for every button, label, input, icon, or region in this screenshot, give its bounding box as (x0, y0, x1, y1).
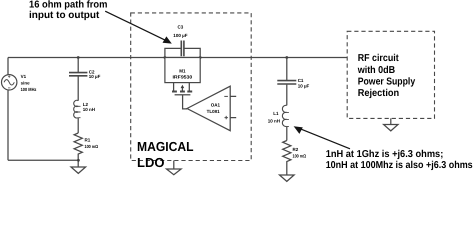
svg-text:10 µF: 10 µF (298, 83, 310, 88)
label L1 (268, 111, 280, 124)
dashed box MAGICAL LDO (131, 13, 252, 161)
svg-text:IRF9530: IRF9530 (173, 74, 193, 79)
svg-text:V1: V1 (21, 74, 27, 79)
svg-text:R1: R1 (85, 138, 91, 143)
svg-text:with 0dB: with 0dB (357, 65, 395, 76)
svg-text:RF circuit: RF circuit (358, 53, 400, 64)
svg-text:Power Supply: Power Supply (358, 77, 416, 88)
svg-text:1nH at 1Ghz is +j6.3 ohms;: 1nH at 1Ghz is +j6.3 ohms; (326, 149, 444, 160)
svg-text:C3: C3 (178, 24, 184, 29)
capacitor C2 (69, 58, 87, 101)
svg-text:100 MHz: 100 MHz (21, 87, 37, 92)
svg-text:100 mΩ: 100 mΩ (85, 144, 99, 149)
node dot C1 top (285, 56, 288, 59)
svg-text:10nH at 100Mhz is also +j6.3 o: 10nH at 100Mhz is also +j6.3 ohms (326, 160, 473, 171)
ground (R2 branch) (280, 175, 295, 181)
svg-text:input to output: input to output (29, 10, 100, 21)
label V1 (21, 74, 37, 92)
ground (RF box) (384, 118, 398, 130)
wire top main rail (8, 57, 347, 59)
label OA1 (207, 103, 221, 114)
op-amp OA1 (187, 86, 236, 131)
transistor M1 symbol (172, 83, 192, 109)
svg-text:C1: C1 (298, 78, 304, 83)
source V1 (2, 75, 17, 90)
node dot C3 left (164, 56, 167, 59)
label C1 (298, 78, 310, 89)
svg-text:10 nH: 10 nH (268, 119, 280, 124)
svg-text:MAGICAL: MAGICAL (137, 139, 194, 154)
annotation top arrow (105, 11, 172, 43)
node dot C3 right (199, 56, 202, 59)
inductor L2 (74, 100, 81, 133)
svg-text:L1: L1 (273, 111, 279, 116)
svg-text:100 µF: 100 µF (173, 33, 187, 38)
svg-text:TL081: TL081 (207, 109, 221, 114)
resistor R1 (74, 133, 82, 167)
resistor R2 (283, 141, 291, 176)
label M1 (173, 68, 193, 79)
annotation bottom arrow (294, 126, 350, 149)
capacitor C1 (277, 58, 296, 106)
svg-text:M1: M1 (179, 68, 186, 73)
node dot C2 top (77, 56, 80, 59)
annotation bottom text (326, 149, 473, 171)
label C3 (173, 24, 187, 38)
svg-text:sine: sine (21, 81, 31, 86)
svg-text:Rejection: Rejection (358, 88, 400, 99)
label RF circuit (357, 53, 416, 99)
svg-text:10 nH: 10 nH (83, 107, 95, 112)
label MAGICAL LDO (137, 139, 194, 170)
svg-text:R2: R2 (293, 147, 299, 152)
transistor M1 body box (165, 58, 200, 83)
svg-text:100 mΩ: 100 mΩ (293, 153, 307, 158)
svg-text:LDO: LDO (137, 155, 164, 170)
svg-text:16 ohm path from: 16 ohm path from (29, 0, 107, 10)
ground (LDO) (167, 161, 182, 175)
node dot bottom junction (77, 159, 80, 162)
dashed box RF circuit (347, 31, 434, 118)
inductor L1 (282, 105, 289, 140)
ground (R1 branch) (71, 167, 86, 173)
wire bottom return (8, 159, 78, 161)
svg-text:OA1: OA1 (211, 103, 221, 108)
capacitor C3 bypass loop (165, 41, 200, 58)
label R1 (85, 138, 99, 149)
label R2 (293, 147, 307, 158)
wire V1 branch verticals (7, 58, 9, 161)
label C2 (89, 70, 101, 79)
annotation top text (29, 0, 107, 21)
svg-text:10 µF: 10 µF (89, 74, 101, 79)
label L2 (83, 102, 95, 112)
